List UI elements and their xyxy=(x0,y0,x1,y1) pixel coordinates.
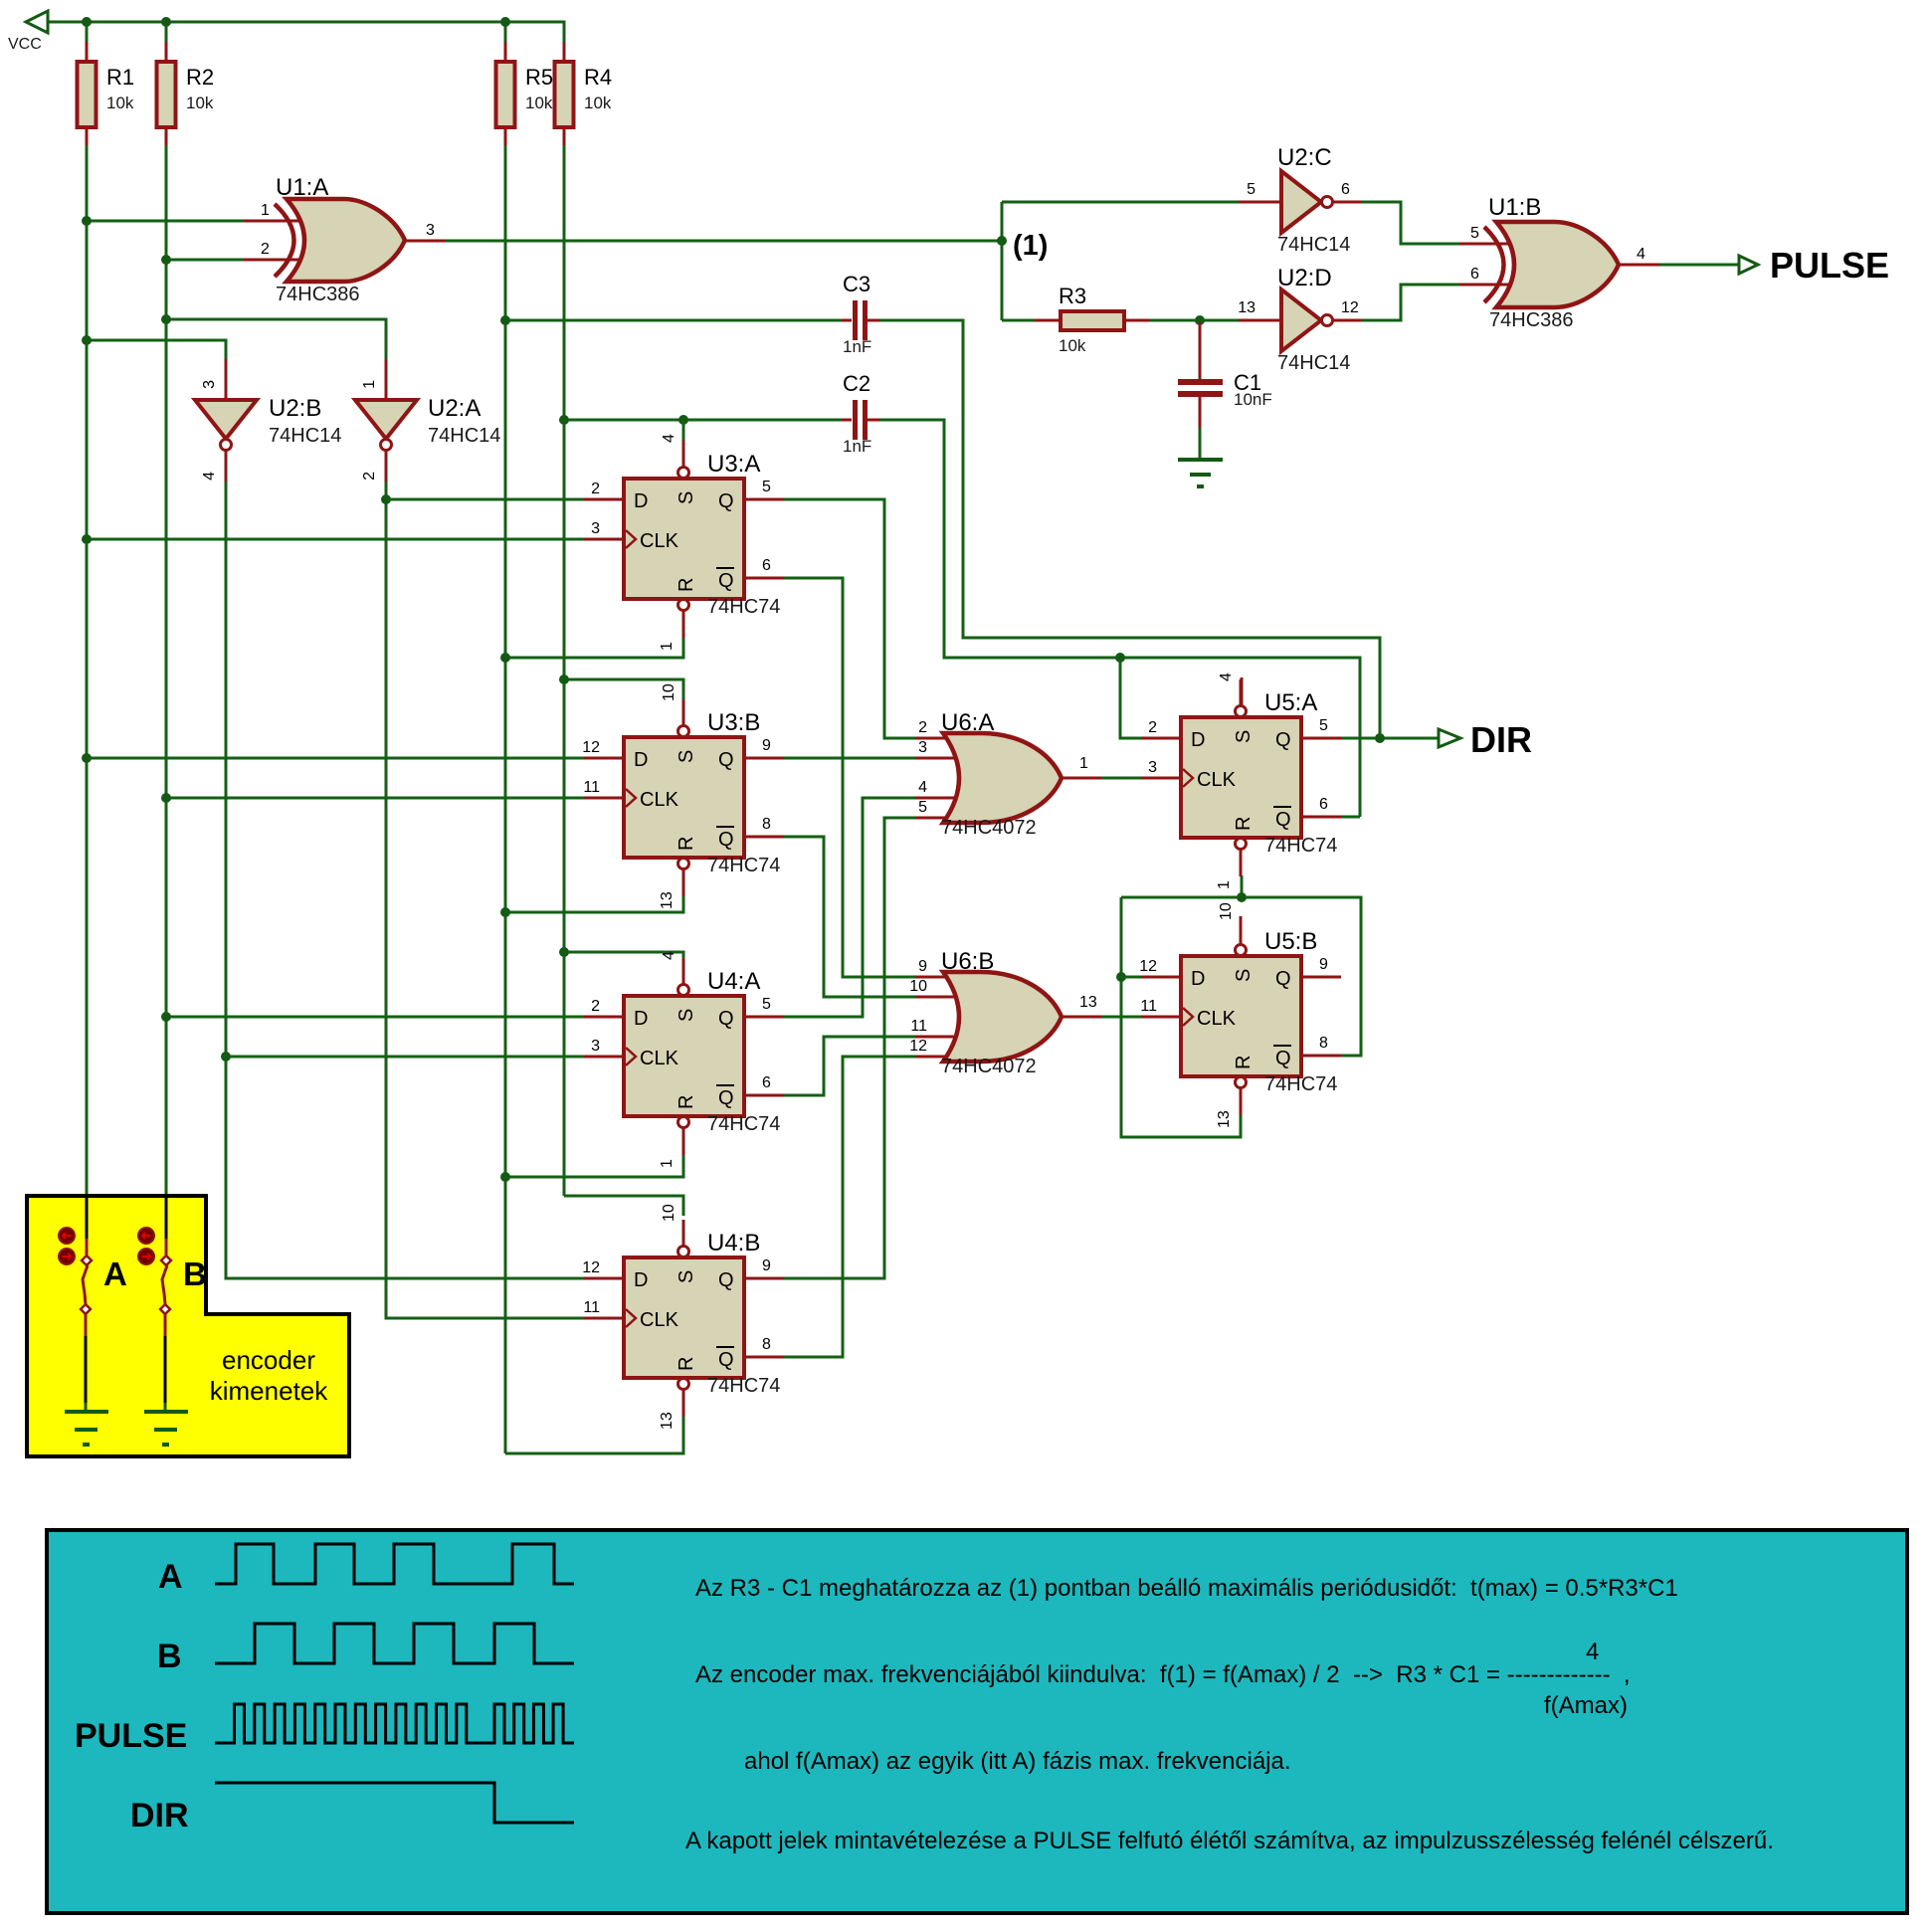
svg-text:DIR: DIR xyxy=(1470,719,1532,760)
wire feedback branch to U5:A D xyxy=(1120,658,1142,738)
junction R5 / U3:A R xyxy=(500,653,510,663)
junction R5 / U3:B R xyxy=(500,907,510,917)
svg-text:12: 12 xyxy=(1341,299,1359,316)
node VCC symbol (power arrow) xyxy=(26,11,48,33)
wire U4:B Q to U6:A pin5 xyxy=(784,818,915,1278)
svg-text:Q: Q xyxy=(718,1087,734,1109)
junction U5:B D xyxy=(1116,972,1126,982)
junction B / U4:A D xyxy=(161,1012,171,1022)
svg-text:D: D xyxy=(1191,729,1205,751)
wire VCC top rail xyxy=(27,22,564,42)
junction R5 / C3 xyxy=(500,315,510,325)
svg-text:74HC74: 74HC74 xyxy=(1264,835,1337,857)
svg-text:9: 9 xyxy=(762,1257,771,1274)
waveform DIR trace xyxy=(215,1783,574,1823)
capacitor C2 xyxy=(842,371,879,456)
svg-text:4: 4 xyxy=(661,434,677,443)
svg-text:1nF: 1nF xyxy=(843,437,871,456)
svg-text:R: R xyxy=(676,1095,697,1109)
svg-text:U6:B: U6:B xyxy=(941,948,994,975)
svg-text:5: 5 xyxy=(1470,225,1479,242)
svg-text:Q: Q xyxy=(718,1269,734,1291)
junction node (1) xyxy=(997,236,1007,246)
svg-text:R3: R3 xyxy=(1059,284,1086,308)
svg-text:U3:A: U3:A xyxy=(707,451,760,478)
node PULSE terminal arrow xyxy=(1739,256,1758,274)
wire R5 net to C3 xyxy=(505,319,842,322)
wire A to U3:A CLK xyxy=(87,538,584,541)
svg-text:2: 2 xyxy=(591,481,600,497)
D flip-flop U5:B xyxy=(1139,902,1341,1128)
svg-text:1: 1 xyxy=(659,1159,676,1168)
svg-text:U2:D: U2:D xyxy=(1277,265,1332,291)
svg-text:12: 12 xyxy=(909,1038,927,1055)
svg-text:Az encoder max. frekvenciájábó: Az encoder max. frekvenciájából kiindulv… xyxy=(695,1661,1631,1688)
wire U3:B Q to U6:A pin3 xyxy=(784,757,915,760)
svg-text:U2:B: U2:B xyxy=(269,395,321,422)
svg-text:6: 6 xyxy=(762,557,771,574)
wire B to U4:A D xyxy=(166,1016,584,1019)
wire U1:A output to node (1) xyxy=(446,240,1002,243)
junction B / U3:B CLK xyxy=(161,793,171,803)
junction VCC/R2 xyxy=(161,17,171,27)
wire U2:A output column (NOT B) xyxy=(386,482,584,1318)
wire column B (R2 to encoder switch B) xyxy=(165,145,168,1196)
svg-text:1nF: 1nF xyxy=(843,337,871,356)
svg-text:R5: R5 xyxy=(525,65,553,90)
svg-text:B: B xyxy=(183,1256,207,1292)
D flip-flop U3:B xyxy=(582,683,784,909)
wire U4:A Q to U6:A pin4 xyxy=(784,798,915,1017)
wire U5:B feedback loop top xyxy=(1121,897,1361,1056)
svg-text:Q: Q xyxy=(718,1349,734,1371)
wire U3:A notQ to U6:B pin9 xyxy=(784,578,915,977)
D flip-flop U4:B xyxy=(582,1204,784,1430)
junction U3:A S tap xyxy=(678,415,688,425)
wire B to U1:A pin2 xyxy=(166,259,244,262)
U5:B Q stub (floating) xyxy=(1301,976,1341,979)
svg-text:D: D xyxy=(634,490,648,512)
svg-text:74HC74: 74HC74 xyxy=(1264,1073,1337,1095)
junction R4 / C2 row xyxy=(559,415,569,425)
node DIR terminal arrow xyxy=(1439,729,1460,747)
svg-text:Q: Q xyxy=(718,749,734,771)
svg-text:13: 13 xyxy=(659,891,676,909)
resistor R4 xyxy=(555,42,613,145)
wire U5:A R to U5:B D node xyxy=(1241,875,1244,897)
svg-text:5: 5 xyxy=(1247,181,1255,198)
svg-text:74HC14: 74HC14 xyxy=(1277,234,1350,256)
wire R3 to C1/U2:D pin13 xyxy=(1150,319,1239,322)
svg-text:f(Amax): f(Amax) xyxy=(1544,1692,1628,1719)
svg-text:1: 1 xyxy=(361,380,378,389)
resistor R3 xyxy=(1035,284,1150,355)
svg-text:13: 13 xyxy=(1238,299,1255,316)
svg-text:10k: 10k xyxy=(584,94,612,112)
svg-text:74HC74: 74HC74 xyxy=(707,1375,780,1397)
svg-text:4: 4 xyxy=(1586,1639,1599,1665)
svg-text:1: 1 xyxy=(261,202,270,219)
svg-text:6: 6 xyxy=(1470,266,1479,283)
wire U5:A Q to DIR xyxy=(1341,737,1439,740)
ground (switch A) xyxy=(65,1412,108,1445)
svg-text:3: 3 xyxy=(591,520,600,537)
svg-text:Q: Q xyxy=(718,570,734,592)
svg-text:10k: 10k xyxy=(106,94,134,112)
ground (switch B) xyxy=(144,1412,188,1445)
junction R5 / U4:A R xyxy=(500,1172,510,1182)
junction R3/C1/U2:D xyxy=(1195,315,1205,325)
svg-text:CLK: CLK xyxy=(640,1048,679,1069)
svg-text:10k: 10k xyxy=(1059,336,1086,355)
svg-text:R2: R2 xyxy=(186,65,214,90)
svg-text:2: 2 xyxy=(361,472,378,481)
wire U2:C pin6 to U1:B pin5 xyxy=(1361,202,1459,244)
wire A to U1:A pin1 xyxy=(87,220,244,223)
junction DIR / C3 net xyxy=(1375,733,1385,743)
U5:A S stub (floating) xyxy=(1241,677,1244,705)
svg-text:U3:B: U3:B xyxy=(707,709,760,736)
svg-text:CLK: CLK xyxy=(1197,769,1237,791)
svg-text:Q: Q xyxy=(1275,729,1291,751)
svg-text:CLK: CLK xyxy=(640,1309,679,1331)
resistor R1 xyxy=(78,42,135,145)
svg-text:74HC74: 74HC74 xyxy=(707,855,780,876)
svg-text:CLK: CLK xyxy=(1197,1008,1237,1030)
svg-text:11: 11 xyxy=(1140,998,1157,1015)
svg-text:4: 4 xyxy=(201,472,218,481)
wire R4 net to U3:B S xyxy=(564,679,683,706)
svg-text:Q: Q xyxy=(718,490,734,512)
encoder output box (yellow) xyxy=(27,1196,349,1456)
svg-text:74HC14: 74HC14 xyxy=(428,425,500,447)
svg-text:U1:A: U1:A xyxy=(276,174,328,201)
junction NOT-A / U4:A CLK xyxy=(221,1052,231,1062)
wire R5 top stub (green) xyxy=(504,22,507,42)
svg-text:5: 5 xyxy=(762,996,771,1013)
junction A / U2:B feed xyxy=(82,335,92,345)
svg-text:U6:A: U6:A xyxy=(941,709,994,736)
svg-text:10: 10 xyxy=(661,1204,677,1222)
junction A / U3:B D xyxy=(82,753,92,763)
svg-text:2: 2 xyxy=(591,998,600,1015)
svg-text:3: 3 xyxy=(201,380,218,389)
svg-text:kimenetek: kimenetek xyxy=(210,1376,328,1406)
XOR gate U1:B xyxy=(1484,194,1619,331)
svg-text:S: S xyxy=(676,750,697,763)
svg-text:U1:B: U1:B xyxy=(1488,194,1541,221)
wire U3:B notQ to U6:B pin10 xyxy=(784,837,915,997)
wire R1 top stub (green) xyxy=(86,22,89,42)
wire node (1) to U2:C pin5 xyxy=(1002,201,1239,204)
wire R5 net to U3:A R xyxy=(505,637,683,658)
svg-text:R1: R1 xyxy=(106,65,134,90)
node (1) vertical xyxy=(1001,202,1004,320)
svg-text:12: 12 xyxy=(582,1259,600,1276)
svg-text:U4:B: U4:B xyxy=(707,1230,760,1256)
wire A to U3:B D xyxy=(87,757,584,760)
svg-text:Az R3 - C1 meghatározza az (1): Az R3 - C1 meghatározza az (1) pontban b… xyxy=(695,1575,1678,1602)
D flip-flop U3:A xyxy=(584,434,784,651)
svg-text:Q: Q xyxy=(1275,968,1291,990)
svg-text:C3: C3 xyxy=(843,272,870,296)
svg-text:VCC: VCC xyxy=(8,36,42,53)
junction R4 / U3:B S xyxy=(559,675,569,684)
wire U3:A S stub join xyxy=(682,420,685,448)
svg-text:B: B xyxy=(157,1638,182,1675)
svg-text:1: 1 xyxy=(659,642,676,651)
svg-text:R: R xyxy=(1233,817,1255,831)
wire U4:B notQ to U6:B pin12 xyxy=(784,1057,915,1357)
svg-text:S: S xyxy=(676,1270,697,1283)
svg-text:6: 6 xyxy=(1319,796,1328,813)
svg-text:Q: Q xyxy=(1275,809,1291,831)
XOR gate U1:A pins xyxy=(244,220,313,223)
svg-text:2: 2 xyxy=(261,241,270,258)
svg-text:R: R xyxy=(676,837,697,851)
svg-text:3: 3 xyxy=(426,222,435,239)
junction R4 / U4:A S xyxy=(559,947,569,957)
svg-text:S: S xyxy=(1233,730,1255,743)
wire NOT-A to U4:A CLK xyxy=(226,1056,584,1059)
svg-text:6: 6 xyxy=(1341,181,1350,198)
wire node (1) to R3 xyxy=(1002,319,1035,322)
svg-text:6: 6 xyxy=(762,1074,771,1091)
wire U1:B pin4 to PULSE xyxy=(1659,264,1739,267)
svg-text:10: 10 xyxy=(909,978,927,995)
svg-text:2: 2 xyxy=(918,719,927,736)
svg-text:8: 8 xyxy=(1319,1035,1328,1052)
svg-text:4: 4 xyxy=(1637,246,1645,263)
wire NOT-B to U3:A D xyxy=(386,498,584,501)
svg-text:CLK: CLK xyxy=(640,789,679,811)
wire U2:D pin12 to U1:B pin6 xyxy=(1361,285,1459,320)
svg-text:(1): (1) xyxy=(1013,230,1048,262)
svg-text:13: 13 xyxy=(1216,1110,1233,1128)
svg-text:Q: Q xyxy=(718,1008,734,1030)
svg-text:5: 5 xyxy=(1319,717,1328,734)
waveform A trace xyxy=(215,1544,574,1584)
svg-text:Q: Q xyxy=(718,829,734,851)
OR gate U6:B xyxy=(909,948,1101,1077)
junction B / U2:A feed xyxy=(161,314,171,324)
junction NOT-B / U3:A D xyxy=(381,494,391,504)
junction A / U3:A CLK xyxy=(82,534,92,544)
waveform B trace xyxy=(215,1624,574,1663)
svg-text:D: D xyxy=(634,1269,648,1291)
wire R4 net to C2 and set pins xyxy=(564,419,842,422)
svg-text:R: R xyxy=(1233,1056,1255,1069)
svg-text:8: 8 xyxy=(762,1336,771,1353)
svg-text:10nF: 10nF xyxy=(1234,390,1272,409)
wire U4:A notQ to U6:B pin11 xyxy=(784,1037,915,1095)
svg-text:9: 9 xyxy=(1319,956,1328,973)
svg-text:D: D xyxy=(634,1008,648,1030)
svg-text:ahol f(Amax) az egyik (itt A): ahol f(Amax) az egyik (itt A) fázis max.… xyxy=(744,1748,1291,1775)
svg-text:4: 4 xyxy=(661,951,677,960)
wire B to U3:B CLK xyxy=(166,797,584,800)
wire R2 top stub (green) xyxy=(165,22,168,42)
svg-text:encoder: encoder xyxy=(222,1345,315,1375)
svg-text:11: 11 xyxy=(583,1299,600,1316)
svg-text:U5:B: U5:B xyxy=(1264,928,1317,955)
wire R5 net to U3:B R xyxy=(505,895,683,912)
wire R5 net to U4:B R xyxy=(505,1415,683,1453)
wire U6:B out to U5:B CLK xyxy=(1101,1016,1141,1019)
wire U3:A Q to U6:A pin2 xyxy=(784,499,915,738)
svg-text:10k: 10k xyxy=(525,94,553,112)
XOR gate U1:B pins xyxy=(1459,243,1524,246)
svg-text:11: 11 xyxy=(910,1018,927,1035)
inverter U2:A xyxy=(355,359,500,482)
svg-text:U5:A: U5:A xyxy=(1264,689,1317,716)
OR gate U6:A xyxy=(915,709,1101,839)
svg-text:74HC14: 74HC14 xyxy=(269,425,341,447)
svg-text:8: 8 xyxy=(762,816,771,833)
svg-text:10k: 10k xyxy=(186,94,214,112)
junction U5:A R / loop xyxy=(1237,892,1247,902)
svg-text:5: 5 xyxy=(762,479,771,495)
svg-text:74HC4072: 74HC4072 xyxy=(941,1056,1037,1077)
svg-text:S: S xyxy=(1233,969,1255,982)
svg-text:Q: Q xyxy=(1275,1048,1291,1069)
inverter U2:D xyxy=(1238,265,1361,374)
svg-text:3: 3 xyxy=(591,1038,600,1055)
svg-text:2: 2 xyxy=(1148,719,1157,736)
svg-text:1: 1 xyxy=(1079,755,1088,772)
XOR gate U1:A xyxy=(275,174,405,305)
notes box (cyan) xyxy=(47,1530,1907,1913)
encoder switch B xyxy=(138,1196,171,1411)
svg-text:R4: R4 xyxy=(584,65,612,90)
encoder switch A xyxy=(59,1196,92,1411)
D flip-flop U4:A xyxy=(584,951,784,1168)
svg-text:U2:C: U2:C xyxy=(1277,144,1332,171)
wire A to U2:B pin3 xyxy=(87,340,226,359)
wire C3 to DIR node (via right side) xyxy=(879,320,1380,738)
wire column A (R1 to encoder switch A) xyxy=(86,145,89,1196)
svg-text:12: 12 xyxy=(582,739,600,756)
junction B / U1:A pin2 xyxy=(161,255,171,265)
svg-text:3: 3 xyxy=(918,739,927,756)
wire U6:A out to U5:A CLK xyxy=(1101,777,1142,780)
ground (C1) xyxy=(1178,460,1223,486)
svg-text:74HC74: 74HC74 xyxy=(707,1113,780,1135)
capacitor C1 xyxy=(1178,322,1272,428)
inverter U2:C xyxy=(1239,144,1361,256)
junction A / U1:A pin1 xyxy=(82,216,92,226)
U5:B S stub (floating) xyxy=(1240,916,1243,944)
svg-text:10: 10 xyxy=(661,683,677,701)
svg-text:11: 11 xyxy=(583,779,600,796)
wire B to U2:A pin1 xyxy=(166,319,386,359)
junction VCC/R5 xyxy=(500,17,510,27)
svg-text:13: 13 xyxy=(1079,994,1097,1011)
wire loop to U5:B D xyxy=(1121,976,1141,979)
wire column R4 set net xyxy=(563,145,566,1196)
svg-text:D: D xyxy=(634,749,648,771)
svg-text:S: S xyxy=(676,1009,697,1022)
svg-text:5: 5 xyxy=(918,799,927,816)
junction VCC/R1 xyxy=(82,17,92,27)
svg-text:74HC74: 74HC74 xyxy=(707,596,780,618)
resistor R5 xyxy=(496,42,554,145)
wire R5 net to U4:A R xyxy=(505,1154,683,1177)
svg-text:10: 10 xyxy=(1218,902,1235,920)
svg-text:CLK: CLK xyxy=(640,530,679,552)
svg-text:PULSE: PULSE xyxy=(1770,245,1889,286)
wire R4 net to U4:B S xyxy=(564,1196,683,1216)
wire column R5 reset net xyxy=(504,145,507,1453)
wire U5:A notQ stub join xyxy=(1341,816,1360,819)
svg-text:PULSE: PULSE xyxy=(75,1717,187,1755)
svg-text:A: A xyxy=(103,1256,127,1292)
svg-text:U2:A: U2:A xyxy=(428,395,481,422)
resistor R2 xyxy=(157,42,215,145)
svg-text:12: 12 xyxy=(1139,958,1157,975)
inverter U2:B xyxy=(195,359,341,482)
svg-text:13: 13 xyxy=(659,1412,676,1430)
wire R4 net to U4:A S xyxy=(564,952,683,960)
svg-text:9: 9 xyxy=(762,737,771,754)
junction U5:A D feedback xyxy=(1115,653,1125,663)
svg-text:U4:A: U4:A xyxy=(707,968,760,995)
svg-text:9: 9 xyxy=(918,958,927,975)
svg-text:C2: C2 xyxy=(843,371,870,396)
svg-text:3: 3 xyxy=(1148,759,1157,776)
waveform PULSE trace xyxy=(215,1704,574,1743)
svg-text:74HC386: 74HC386 xyxy=(1489,309,1574,331)
svg-text:R: R xyxy=(676,578,697,592)
svg-text:74HC386: 74HC386 xyxy=(276,284,360,305)
svg-text:A kapott jelek mintavételezése: A kapott jelek mintavételezése a PULSE f… xyxy=(685,1828,1774,1854)
wire C1 to ground xyxy=(1199,428,1202,460)
wire U2:B output column (NOT A) xyxy=(226,482,584,1278)
svg-text:4: 4 xyxy=(1218,673,1235,681)
svg-text:R: R xyxy=(676,1357,697,1371)
svg-text:DIR: DIR xyxy=(130,1797,189,1835)
svg-text:74HC4072: 74HC4072 xyxy=(941,817,1037,839)
wire C2 to U5:A D/notQ feedback xyxy=(879,420,1360,817)
svg-text:D: D xyxy=(1191,968,1205,990)
D flip-flop U5:A xyxy=(1141,673,1341,889)
svg-text:S: S xyxy=(676,491,697,504)
capacitor C3 xyxy=(842,272,879,356)
svg-text:4: 4 xyxy=(918,779,927,796)
svg-text:74HC14: 74HC14 xyxy=(1277,352,1350,374)
wire U5:B feedback loop left/bottom xyxy=(1121,897,1241,1137)
svg-text:1: 1 xyxy=(1216,880,1233,889)
svg-text:A: A xyxy=(158,1558,183,1596)
